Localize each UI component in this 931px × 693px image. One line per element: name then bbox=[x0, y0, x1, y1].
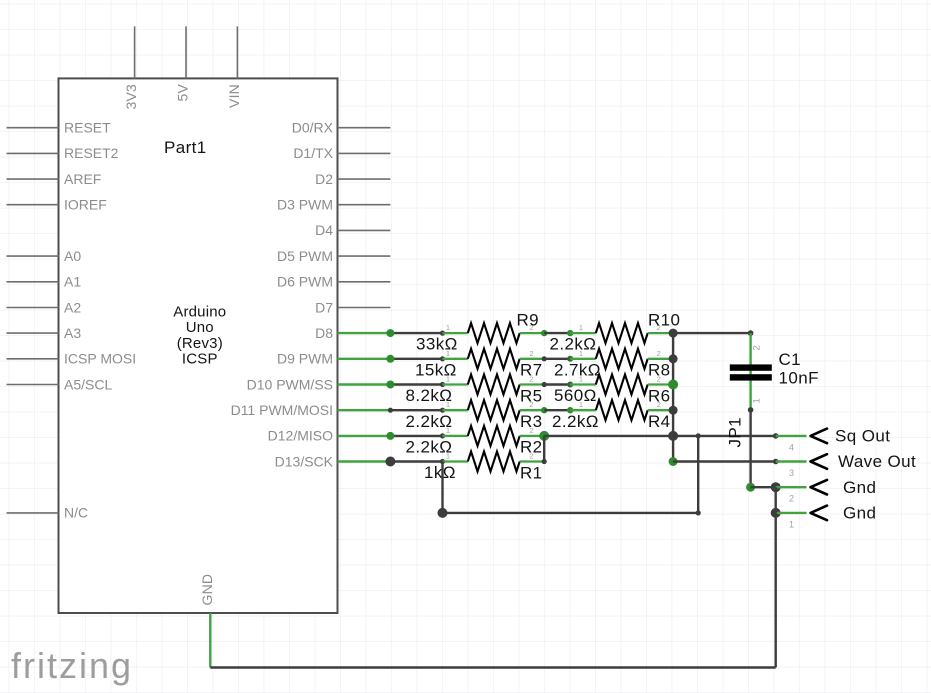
wire D12 pin leg (green) bbox=[338, 435, 391, 437]
svg-text:1: 1 bbox=[446, 323, 450, 332]
wire D11 to R3 bbox=[390, 409, 442, 411]
node junction at Gnd row bbox=[746, 483, 755, 492]
svg-text:2.7kΩ: 2.7kΩ bbox=[554, 360, 601, 379]
node D13 tap corner bbox=[438, 508, 448, 518]
pin GND (bottom, label) bbox=[199, 574, 215, 606]
pin D6 PWM (right stub) bbox=[277, 274, 390, 290]
wire D11 pin leg (green) bbox=[338, 409, 391, 411]
svg-text:3: 3 bbox=[789, 468, 794, 478]
node bus junction bbox=[669, 406, 678, 415]
svg-text:2: 2 bbox=[657, 375, 661, 384]
pin label D13/SCK bbox=[275, 453, 334, 469]
svg-text:1kΩ: 1kΩ bbox=[424, 463, 456, 482]
svg-text:ICSP: ICSP bbox=[182, 351, 218, 368]
resistor R10 2.2kΩ bbox=[550, 311, 681, 354]
wire tap up to Sq Out net bbox=[697, 436, 699, 513]
wire D13 tap across bbox=[443, 512, 699, 514]
pin N/C (left stub) bbox=[7, 505, 89, 521]
junction at R7 pin 1 bbox=[440, 356, 445, 361]
wire D13 tap down bbox=[441, 462, 443, 513]
node bus junction bbox=[668, 380, 678, 390]
svg-text:C1: C1 bbox=[779, 350, 802, 369]
node junction at D11 wire start bbox=[388, 408, 393, 413]
svg-text:R1: R1 bbox=[520, 463, 543, 482]
svg-text:10nF: 10nF bbox=[779, 368, 819, 387]
svg-text:(Rev3): (Rev3) bbox=[177, 335, 223, 352]
svg-text:2: 2 bbox=[529, 426, 533, 435]
pin D0/RX (right stub) bbox=[292, 120, 391, 136]
svg-text:33kΩ: 33kΩ bbox=[416, 335, 458, 354]
svg-text:ICSP MOSI: ICSP MOSI bbox=[64, 351, 136, 367]
svg-text:D3 PWM: D3 PWM bbox=[277, 197, 333, 213]
wire D10 pin leg (green) bbox=[338, 383, 391, 385]
svg-text:D11 PWM/MOSI: D11 PWM/MOSI bbox=[231, 402, 333, 418]
pin D3 PWM (right stub) bbox=[277, 197, 390, 213]
node R1 output corner bbox=[542, 459, 547, 464]
svg-text:Sq Out: Sq Out bbox=[835, 427, 890, 446]
pin label D8 bbox=[315, 325, 333, 341]
svg-text:R9: R9 bbox=[517, 311, 540, 330]
pin A1 (left stub) bbox=[7, 274, 82, 290]
wire R2 output / Sq Out net bbox=[544, 435, 776, 437]
pin label D10 PWM/SS bbox=[247, 376, 333, 392]
svg-text:JP1: JP1 bbox=[726, 417, 745, 448]
pin D4 (right stub) bbox=[315, 222, 390, 238]
svg-text:1: 1 bbox=[752, 398, 763, 403]
wire R3 to R4 bbox=[544, 409, 570, 411]
connector JP1 pin 1 (Gnd) bbox=[771, 504, 877, 530]
junction at R3 pin 1 bbox=[440, 408, 445, 413]
svg-text:1: 1 bbox=[579, 349, 583, 358]
pin IOREF (left stub) bbox=[7, 197, 107, 213]
resistor R4 2.2kΩ bbox=[552, 400, 673, 431]
pin D5 PWM (right stub) bbox=[277, 248, 390, 264]
svg-text:R4: R4 bbox=[648, 412, 671, 431]
svg-text:Gnd: Gnd bbox=[843, 504, 876, 523]
junction at R1 pin 1 bbox=[440, 459, 445, 464]
svg-text:2: 2 bbox=[657, 400, 661, 409]
connector JP1 pin 3 (Wave Out) bbox=[773, 452, 916, 478]
svg-text:2: 2 bbox=[657, 349, 661, 358]
svg-text:4: 4 bbox=[789, 442, 794, 452]
node junction at D13 wire start bbox=[385, 457, 395, 467]
svg-text:Wave Out: Wave Out bbox=[838, 452, 916, 471]
wire D10 to R5 bbox=[390, 383, 442, 385]
svg-text:VIN: VIN bbox=[226, 84, 242, 108]
node junction at D10 wire start bbox=[386, 381, 394, 389]
node tap corner bbox=[696, 510, 701, 515]
node junction between R5 and R6 bbox=[542, 382, 547, 387]
wire R5 to R6 bbox=[544, 383, 570, 385]
svg-text:2: 2 bbox=[529, 400, 533, 409]
svg-text:1: 1 bbox=[446, 349, 450, 358]
node tap junction on Sq Out net bbox=[696, 433, 701, 438]
svg-text:1: 1 bbox=[446, 426, 450, 435]
svg-text:5V: 5V bbox=[175, 84, 191, 102]
wire ground rail bbox=[210, 666, 775, 668]
svg-text:D4: D4 bbox=[315, 222, 333, 238]
pin ICSP MOSI (left stub) bbox=[7, 351, 137, 367]
node junction between R7 and R8 bbox=[542, 356, 547, 361]
svg-text:2.2kΩ: 2.2kΩ bbox=[552, 412, 599, 431]
wire JP1 pin2 to pin1 bbox=[775, 487, 777, 513]
svg-text:IOREF: IOREF bbox=[64, 197, 107, 213]
svg-text:D2: D2 bbox=[315, 171, 333, 187]
svg-text:D1/TX: D1/TX bbox=[293, 145, 333, 161]
fritzing watermark bbox=[11, 645, 133, 686]
svg-text:15kΩ: 15kΩ bbox=[415, 360, 457, 379]
connector JP1 label bbox=[726, 417, 745, 448]
wire D13 to R1 bbox=[390, 460, 442, 462]
node bus junction bbox=[668, 431, 678, 441]
pin 3V3 (top stub) bbox=[123, 26, 139, 109]
node junction at D12 wire start bbox=[386, 432, 394, 440]
svg-text:2.2kΩ: 2.2kΩ bbox=[550, 335, 597, 354]
wire R1 output up to Sq Out net bbox=[543, 436, 545, 462]
wire D8 pin leg (green) bbox=[338, 332, 391, 334]
resistor R5 8.2kΩ bbox=[406, 375, 545, 406]
pin A5/SCL (left stub) bbox=[7, 376, 113, 392]
svg-text:A3: A3 bbox=[64, 325, 81, 341]
wire JP1 pin1 down to ground rail bbox=[775, 513, 777, 668]
svg-text:Part1: Part1 bbox=[164, 138, 207, 157]
pin label D12/MISO bbox=[268, 428, 333, 444]
pin AREF (left stub) bbox=[7, 171, 102, 187]
junction at R9 pin 1 bbox=[440, 331, 445, 336]
wire summing bus (R10/R8/R6/R4 outputs) bbox=[672, 333, 674, 461]
node junction between R9 and R10 bbox=[541, 330, 547, 336]
arduino uno Part1 body bbox=[59, 78, 338, 613]
wire GND pin leg (green) bbox=[209, 613, 211, 668]
svg-text:1: 1 bbox=[579, 400, 583, 409]
svg-text:2: 2 bbox=[529, 452, 533, 461]
svg-text:RESET2: RESET2 bbox=[64, 145, 119, 161]
svg-text:2: 2 bbox=[529, 349, 533, 358]
pin VIN (top stub) bbox=[226, 26, 242, 108]
svg-text:A1: A1 bbox=[64, 274, 81, 290]
resistor R1 1kΩ bbox=[424, 452, 544, 483]
svg-text:A0: A0 bbox=[64, 248, 81, 264]
connector JP1 pin 4 (Sq Out) bbox=[773, 427, 890, 453]
pin RESET (left stub) bbox=[7, 120, 112, 136]
pin A0 (left stub) bbox=[7, 248, 82, 264]
node junction between R3 and R4 bbox=[541, 407, 547, 413]
pin D2 (right stub) bbox=[315, 171, 390, 187]
svg-text:D12/MISO: D12/MISO bbox=[268, 428, 333, 444]
wire to JP1 pin 2 bbox=[751, 486, 776, 488]
wire Wave Out net bbox=[673, 460, 776, 462]
svg-text:1: 1 bbox=[579, 323, 583, 332]
svg-text:3V3: 3V3 bbox=[123, 84, 139, 110]
pin A3 (left stub) bbox=[7, 325, 82, 341]
svg-text:2: 2 bbox=[529, 375, 533, 384]
svg-text:Uno: Uno bbox=[186, 319, 214, 336]
svg-text:D8: D8 bbox=[315, 325, 333, 341]
svg-text:fritzing: fritzing bbox=[11, 645, 133, 686]
svg-text:D13/SCK: D13/SCK bbox=[275, 453, 334, 469]
svg-text:2: 2 bbox=[752, 345, 763, 350]
pin D7 (right stub) bbox=[315, 299, 390, 315]
svg-text:1: 1 bbox=[789, 519, 794, 529]
node bus junction bbox=[669, 354, 678, 363]
pin label D9 PWM bbox=[277, 351, 333, 367]
wire R7 to R8 bbox=[544, 358, 570, 360]
node bus junction bbox=[669, 457, 678, 466]
wire C1 bottom down to Gnd row bbox=[749, 410, 751, 487]
wire D9 to R7 bbox=[390, 358, 442, 360]
svg-text:RESET: RESET bbox=[64, 120, 111, 136]
svg-text:GND: GND bbox=[199, 574, 215, 606]
svg-text:D9 PWM: D9 PWM bbox=[277, 351, 333, 367]
svg-text:A2: A2 bbox=[64, 299, 81, 315]
svg-text:560Ω: 560Ω bbox=[554, 386, 597, 405]
wire D12 to R2 bbox=[390, 435, 442, 437]
wire D13 pin leg (green) bbox=[338, 460, 391, 462]
node junction at D8 wire start bbox=[386, 329, 394, 337]
svg-text:1: 1 bbox=[446, 400, 450, 409]
svg-text:1: 1 bbox=[579, 375, 583, 384]
svg-text:N/C: N/C bbox=[64, 505, 88, 521]
svg-text:1: 1 bbox=[446, 375, 450, 384]
pin A2 (left stub) bbox=[7, 299, 82, 315]
pin 5V (top stub) bbox=[175, 26, 191, 101]
junction at R4 pin 1 bbox=[567, 407, 573, 413]
junction at R10 pin 1 bbox=[567, 330, 573, 336]
node C1 top corner bbox=[748, 330, 754, 336]
svg-text:Gnd: Gnd bbox=[843, 478, 876, 497]
svg-text:R10: R10 bbox=[648, 311, 680, 330]
svg-text:D7: D7 bbox=[315, 299, 333, 315]
junction at R8 pin 1 bbox=[567, 356, 573, 362]
wire R9 to R10 bbox=[544, 332, 570, 334]
node R2 output junction bbox=[539, 431, 549, 441]
junction at R6 pin 1 bbox=[567, 382, 573, 388]
pin label D11 PWM/MOSI bbox=[231, 402, 333, 418]
svg-text:Arduino: Arduino bbox=[173, 304, 226, 321]
resistor R7 15kΩ bbox=[415, 349, 544, 380]
junction at R5 pin 1 bbox=[440, 382, 445, 387]
resistor R3 2.2kΩ bbox=[406, 400, 545, 431]
resistor R6 560Ω bbox=[554, 375, 673, 406]
wire bus to C1 top bbox=[673, 332, 751, 334]
svg-text:AREF: AREF bbox=[64, 171, 101, 187]
connector JP1 pin 2 (Gnd) bbox=[771, 478, 877, 504]
svg-text:1: 1 bbox=[446, 452, 450, 461]
pin RESET2 (left stub) bbox=[7, 145, 119, 161]
wire D8 to R9 bbox=[390, 332, 442, 334]
svg-text:D10 PWM/SS: D10 PWM/SS bbox=[247, 376, 333, 392]
node bus junction bbox=[669, 329, 678, 338]
resistor R9 33kΩ bbox=[416, 311, 544, 354]
pin D1/TX (right stub) bbox=[293, 145, 390, 161]
svg-text:D0/RX: D0/RX bbox=[292, 120, 334, 136]
svg-text:D6 PWM: D6 PWM bbox=[277, 274, 333, 290]
wire D9 pin leg (green) bbox=[338, 358, 391, 360]
resistor R2 2.2kΩ bbox=[406, 426, 545, 457]
node junction at D9 wire start bbox=[386, 355, 394, 363]
resistor R8 2.7kΩ bbox=[554, 349, 673, 380]
capacitor C1 10nF bbox=[730, 333, 819, 410]
node C1 bottom corner bbox=[748, 407, 754, 413]
junction at R2 pin 1 bbox=[440, 433, 445, 438]
svg-text:2: 2 bbox=[789, 494, 794, 504]
svg-text:D5 PWM: D5 PWM bbox=[277, 248, 333, 264]
svg-text:A5/SCL: A5/SCL bbox=[64, 376, 112, 392]
